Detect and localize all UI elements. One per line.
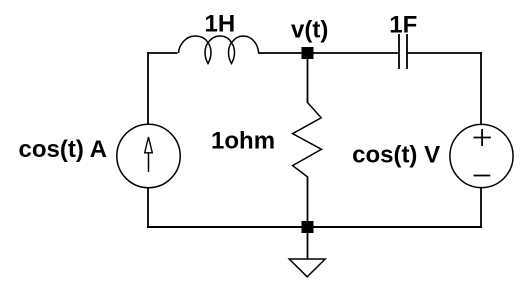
resistor R1 zigzag <box>293 103 322 177</box>
capacitor C1 right plate <box>406 34 408 69</box>
wire node to capacitor <box>313 52 399 54</box>
svg-text:cos(t) V: cos(t) V <box>352 141 440 168</box>
svg-text:1ohm: 1ohm <box>211 127 275 154</box>
wire bottom horizontal <box>147 226 482 228</box>
voltage source plus sign <box>474 137 491 139</box>
current source arrow head <box>145 137 153 153</box>
wire top-left horizontal <box>148 52 178 54</box>
wire left vertical lower <box>147 188 149 229</box>
svg-text:v(t): v(t) <box>291 16 328 43</box>
current source I1 circle <box>117 124 180 187</box>
wire left vertical upper <box>147 52 149 125</box>
bottom node square junction <box>302 221 314 233</box>
wire inductor to node v(t) <box>258 52 302 54</box>
voltage source minus sign <box>474 175 491 177</box>
wire ground stem <box>307 233 309 260</box>
svg-text:1F: 1F <box>389 11 417 38</box>
wire right vertical lower <box>480 188 482 229</box>
current source arrow shaft <box>148 153 150 173</box>
svg-text:cos(t) A: cos(t) A <box>19 136 107 163</box>
ground symbol triangle <box>289 259 325 277</box>
node v(t) square junction <box>302 47 314 59</box>
wire capacitor to top-right corner <box>407 52 482 54</box>
wire middle vertical upper (node to resistor) <box>307 59 309 103</box>
inductor L1 coil <box>179 36 259 64</box>
capacitor C1 left plate <box>398 34 400 69</box>
voltage source V1 circle <box>450 124 513 187</box>
svg-text:1H: 1H <box>205 10 236 37</box>
wire right vertical upper <box>480 52 482 125</box>
wire middle vertical lower (resistor to bottom node) <box>307 177 309 223</box>
